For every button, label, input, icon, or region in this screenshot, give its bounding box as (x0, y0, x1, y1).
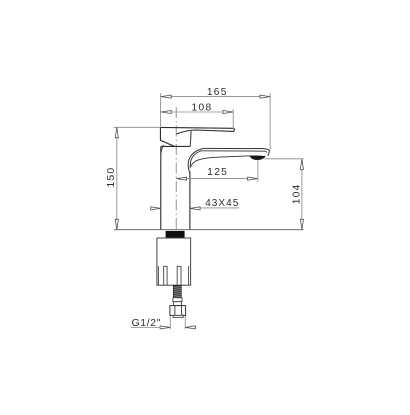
extension line right 125 (257, 160, 259, 182)
svg-text:G1/2": G1/2" (132, 318, 161, 329)
shank castellation bar 1 (164, 266, 167, 285)
dimension 150 line (116, 128, 118, 230)
spout inner fillet (190, 151, 201, 168)
spout underside (191, 156, 250, 167)
smooth neck (173, 298, 182, 302)
dimension 108 right arrow (223, 110, 233, 113)
dimension 108 left arrow (161, 110, 171, 113)
threaded stud (173, 286, 181, 298)
dimension 43X45 right arrow (190, 207, 200, 210)
dimension 125 left arrow (176, 177, 186, 180)
shank castellation right line (188, 266, 190, 285)
shank castellation left line (157, 266, 159, 285)
dimension 104 line (301, 159, 303, 229)
extension line right 108 (232, 109, 234, 129)
svg-text:43X45: 43X45 (205, 198, 239, 209)
o-ring band (166, 231, 185, 238)
mounting shank (157, 238, 191, 285)
extension line top 104 (265, 158, 304, 160)
extension line left (165/108) (160, 93, 162, 127)
extension line right 165 (269, 93, 271, 150)
svg-text:108: 108 (192, 103, 213, 114)
dimension 104 bottom arrow (300, 219, 303, 229)
collar (174, 302, 182, 306)
stud tail (173, 315, 183, 317)
svg-text:150: 150 (106, 167, 117, 188)
dimension 43X45 leader (200, 207, 239, 209)
dimension 108 line (161, 111, 233, 113)
deck line (114, 229, 304, 231)
dimension G1/2 extension lines (169, 316, 171, 330)
body neck curve (161, 145, 163, 153)
dimension 165 line (161, 96, 270, 98)
spout outer fillet (188, 148, 203, 172)
dimension 150 top arrow (115, 128, 118, 138)
lever handle (161, 127, 235, 134)
dimension G1/2 left arrow (160, 326, 170, 329)
hex nut (170, 306, 186, 316)
dimension 150 bottom arrow (115, 219, 118, 229)
dimension G1/2 right arrow (185, 326, 195, 329)
handle base (160, 127, 174, 146)
dimension 125 line (176, 178, 257, 180)
dimension 165 right arrow (260, 95, 270, 98)
dimension 125 right arrow (248, 177, 258, 180)
spout top edge (204, 148, 270, 155)
dimension 104 top arrow (300, 159, 303, 169)
dimension G1/2 leader (131, 327, 161, 329)
dimension 43X45 left arrow (151, 207, 161, 210)
dimension 165 left arrow (161, 95, 171, 98)
body (161, 146, 190, 229)
shank castellation bar 2 (177, 266, 181, 285)
svg-text:165: 165 (207, 87, 228, 98)
extension line top 150 (114, 126, 161, 128)
svg-text:125: 125 (207, 167, 228, 178)
spout top inner line (201, 151, 267, 153)
aerator (250, 156, 266, 160)
svg-text:104: 104 (291, 183, 302, 204)
centerline (175, 107, 177, 230)
